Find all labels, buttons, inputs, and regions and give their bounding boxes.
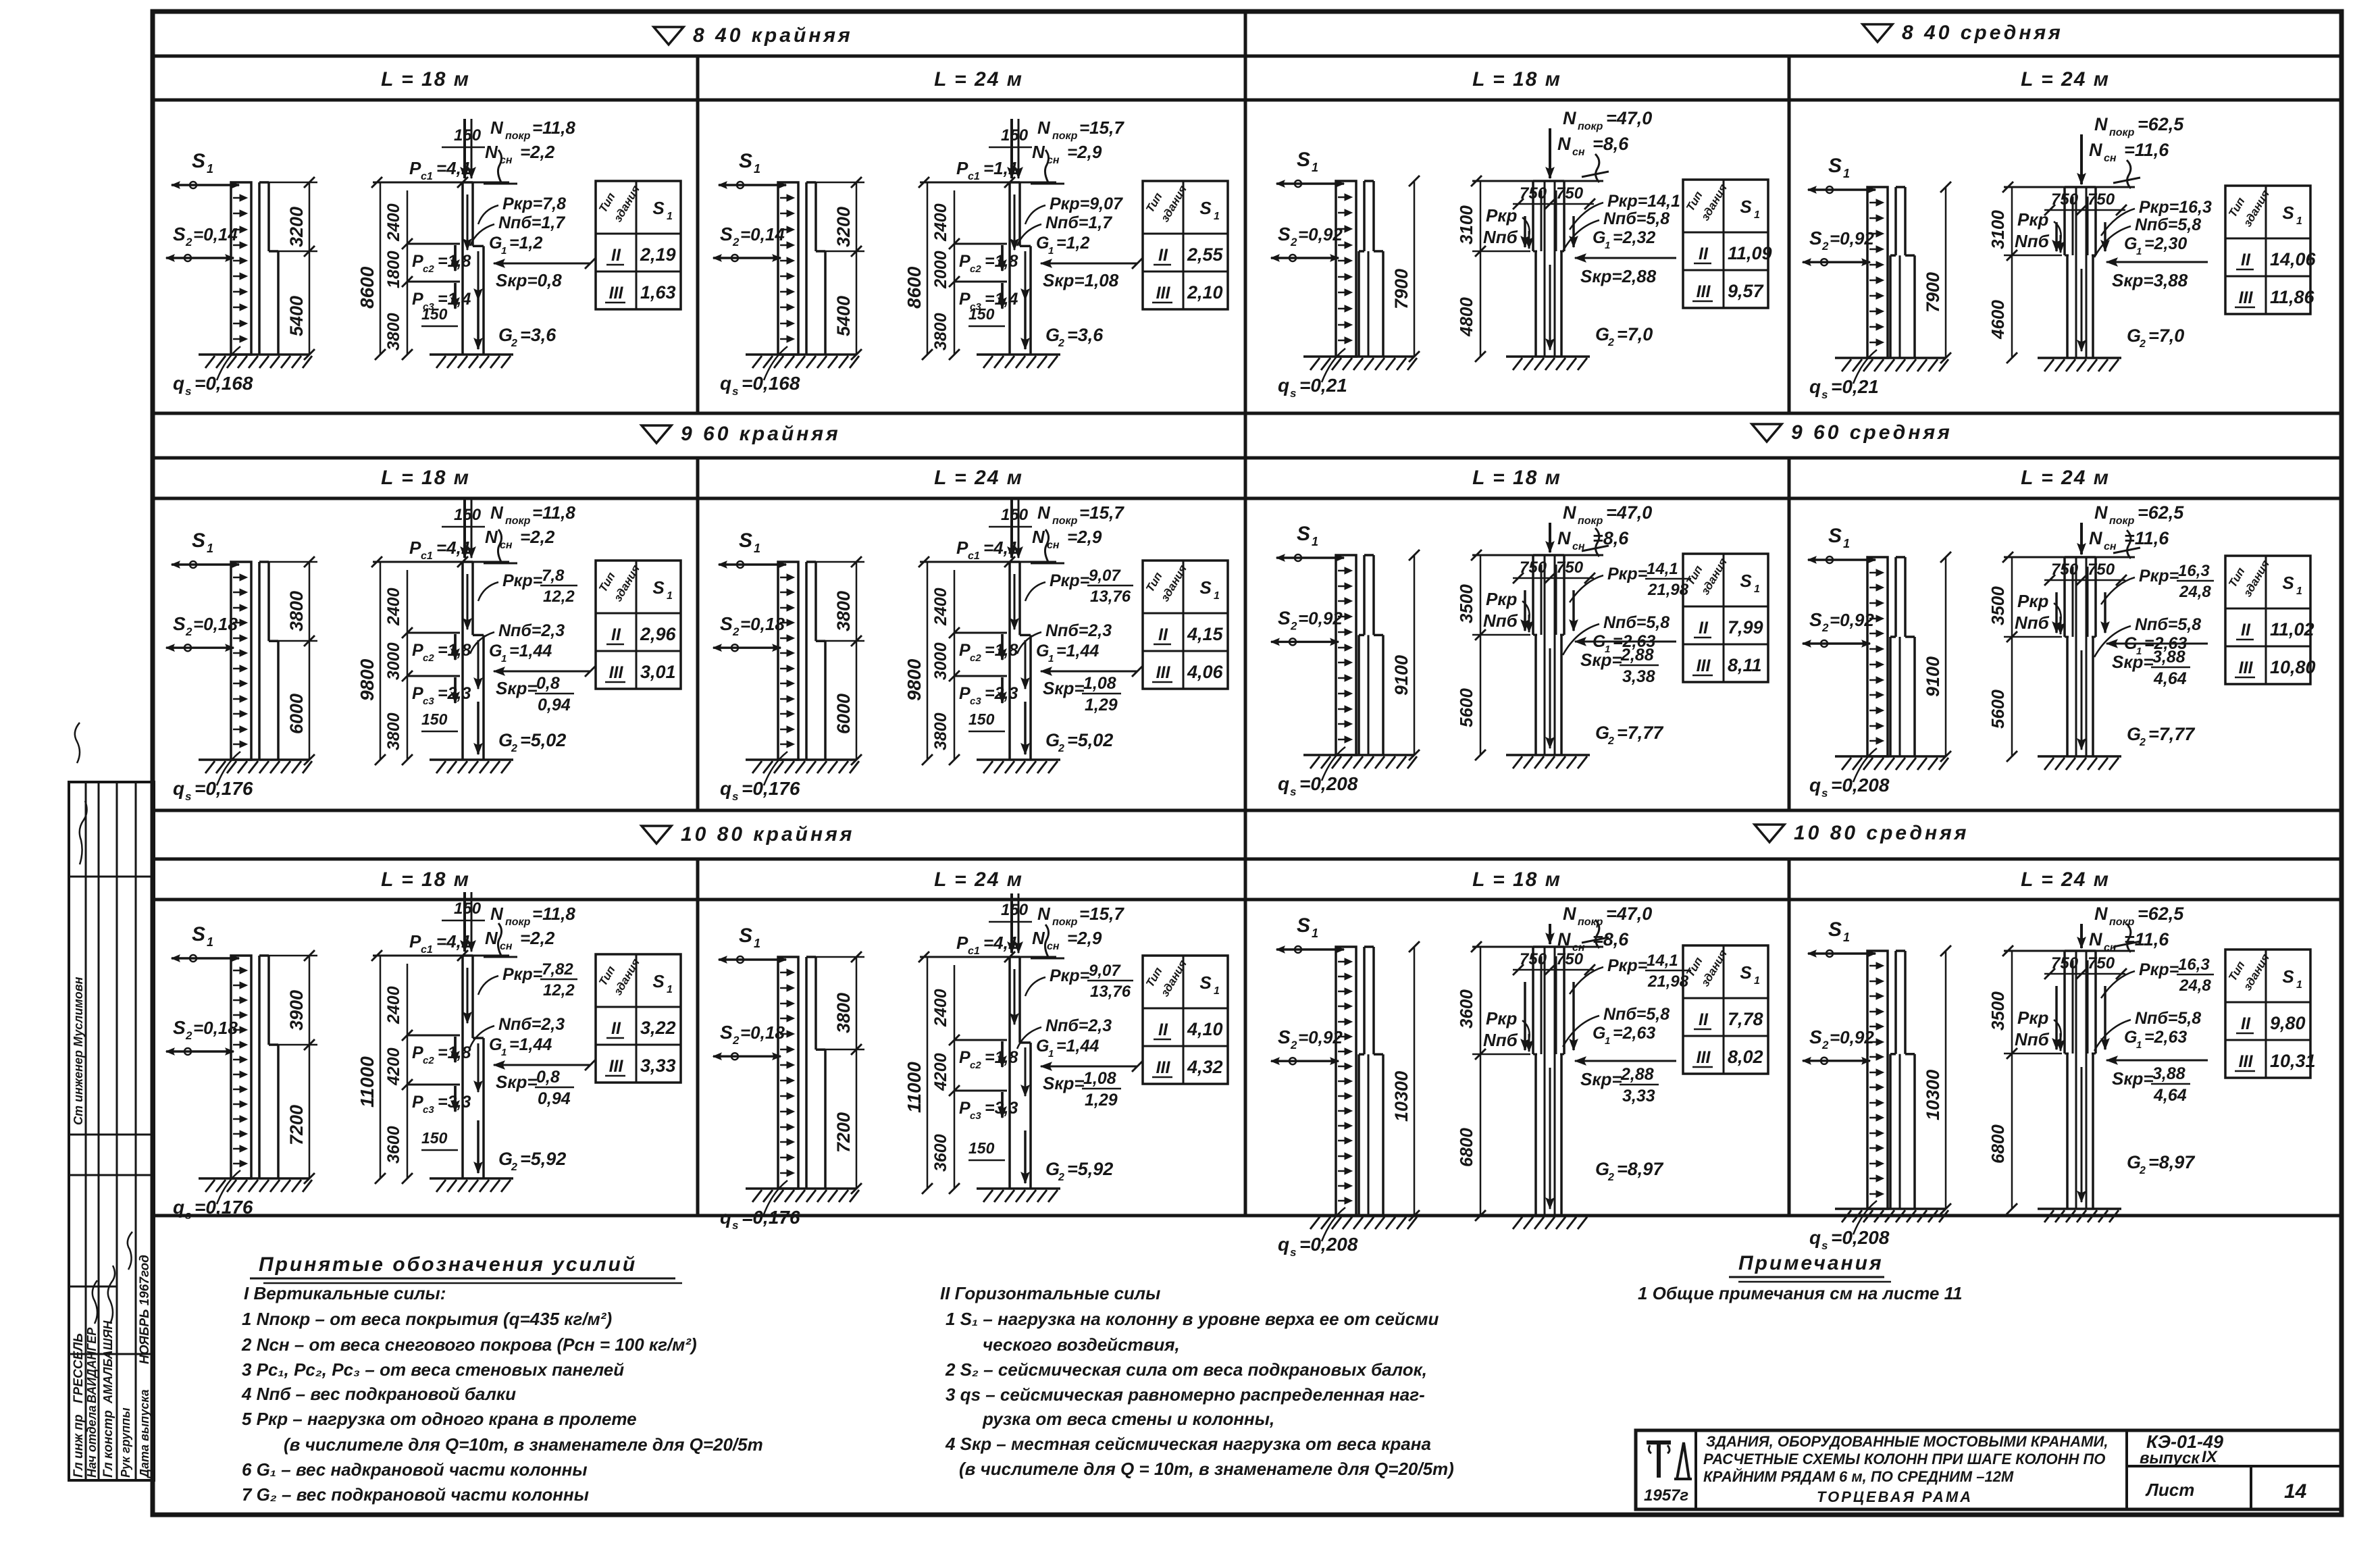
- svg-text:L = 24 м: L = 24 м: [934, 68, 1023, 90]
- cell R2C2 column load diagram: [904, 498, 1143, 773]
- svg-text:q: q: [720, 373, 731, 394]
- svg-text:11,09: 11,09: [1728, 243, 1772, 263]
- svg-text:8 40 крайняя: 8 40 крайняя: [693, 24, 853, 47]
- svg-text:4,32: 4,32: [1187, 1057, 1223, 1077]
- svg-text:покр: покр: [1578, 515, 1603, 527]
- svg-text:Sкр=1,08: Sкр=1,08: [1043, 270, 1119, 290]
- cell R1C2 wall load diagram: [713, 150, 864, 398]
- svg-text:1,08: 1,08: [1083, 1069, 1116, 1088]
- svg-text:Pкр: Pкр: [2017, 1008, 2049, 1028]
- svg-text:5600: 5600: [1456, 688, 1476, 727]
- cell R3C1 wall load diagram: [166, 923, 317, 1222]
- svg-text:1: 1: [1312, 535, 1318, 548]
- svg-text:N: N: [1037, 904, 1051, 924]
- svg-text:6 G₁ – вес надкрановой част: 6 G₁ – вес надкрановой части колонны: [242, 1459, 588, 1480]
- svg-text:S: S: [173, 224, 186, 244]
- svg-text:750: 750: [2088, 561, 2115, 579]
- svg-text:9,57: 9,57: [1728, 281, 1765, 301]
- svg-text:P: P: [409, 538, 421, 558]
- svg-text:=7,0: =7,0: [2148, 326, 2184, 346]
- svg-text:4,64: 4,64: [2153, 669, 2187, 688]
- svg-text:2,10: 2,10: [1187, 282, 1223, 303]
- svg-text:2: 2: [185, 236, 192, 249]
- svg-text:3900: 3900: [286, 990, 307, 1031]
- cell R1C2 result table: [1143, 181, 1228, 309]
- svg-text:3600: 3600: [384, 1126, 403, 1164]
- svg-text:Pкр=: Pкр=: [502, 571, 543, 590]
- svg-text:1: 1: [667, 590, 673, 602]
- svg-text:2,88: 2,88: [1620, 1065, 1654, 1084]
- svg-text:S: S: [720, 224, 733, 244]
- svg-text:=8,97: =8,97: [2148, 1152, 2196, 1172]
- svg-text:s: s: [185, 385, 191, 398]
- svg-text:8,11: 8,11: [1728, 655, 1762, 675]
- svg-text:S: S: [1199, 198, 1212, 218]
- svg-text:9800: 9800: [904, 658, 925, 701]
- svg-text:L = 18 м: L = 18 м: [381, 868, 470, 891]
- svg-text:750: 750: [2088, 954, 2115, 972]
- svg-text:6000: 6000: [833, 694, 854, 734]
- svg-text:G: G: [1595, 324, 1609, 344]
- title block codes: [2140, 1432, 2307, 1503]
- svg-text:Лист: Лист: [2145, 1480, 2194, 1500]
- svg-text:6800: 6800: [1988, 1124, 2008, 1164]
- svg-text:2: 2: [1821, 1039, 1829, 1051]
- svg-text:=15,7: =15,7: [1079, 502, 1124, 523]
- svg-text:Nпб=5,8: Nпб=5,8: [2135, 615, 2201, 634]
- svg-text:=1,44: =1,44: [1056, 642, 1099, 660]
- svg-text:c2: c2: [423, 1055, 434, 1066]
- svg-text:1 S₁ – нагрузка на колонну: 1 S₁ – нагрузка на колонну в уровне верх…: [946, 1309, 1439, 1329]
- svg-text:14,06: 14,06: [2270, 249, 2317, 269]
- svg-text:1: 1: [1605, 1035, 1610, 1047]
- svg-text:3,22: 3,22: [640, 1018, 676, 1038]
- svg-text:L = 24 м: L = 24 м: [934, 467, 1023, 489]
- svg-text:8600: 8600: [904, 266, 925, 309]
- svg-text:L = 24 м: L = 24 м: [2021, 467, 2110, 489]
- svg-text:11000: 11000: [904, 1062, 925, 1113]
- svg-text:P: P: [959, 1048, 971, 1067]
- svg-text:Nпб: Nпб: [1483, 227, 1518, 247]
- svg-text:c2: c2: [970, 263, 981, 275]
- svg-text:3 Pс₁, Pс₂, Pс₃ – от веса ст: 3 Pс₁, Pс₂, Pс₃ – от веса стеновых панел…: [242, 1359, 624, 1380]
- svg-text:q: q: [1278, 773, 1289, 794]
- svg-text:Pкр: Pкр: [1486, 205, 1518, 226]
- svg-text:150: 150: [454, 506, 482, 524]
- svg-text:1: 1: [667, 211, 673, 222]
- cell R1C3 column load diagram: [1456, 108, 1680, 370]
- header 960 крайняя: [642, 423, 841, 445]
- svg-text:=5,02: =5,02: [1067, 730, 1113, 750]
- svg-text:II: II: [611, 246, 621, 265]
- svg-text:s: s: [1821, 1239, 1828, 1252]
- svg-text:S: S: [1278, 224, 1291, 244]
- svg-text:5400: 5400: [286, 296, 307, 336]
- svg-text:9 60 средняя: 9 60 средняя: [1791, 421, 1952, 444]
- svg-text:Sкр=: Sкр=: [496, 678, 538, 698]
- svg-text:сн: сн: [2104, 153, 2117, 164]
- svg-text:5400: 5400: [833, 296, 854, 336]
- svg-text:L = 18 м: L = 18 м: [381, 467, 470, 489]
- svg-text:II: II: [2241, 621, 2251, 640]
- svg-text:4200: 4200: [384, 1047, 403, 1086]
- svg-text:S: S: [1740, 197, 1752, 217]
- svg-text:1: 1: [2136, 246, 2142, 257]
- cell R2C2 result table: [1143, 561, 1228, 689]
- svg-text:1: 1: [1048, 245, 1054, 257]
- svg-text:Nпб=5,8: Nпб=5,8: [1603, 209, 1670, 228]
- svg-text:III: III: [2239, 288, 2254, 307]
- svg-text:2 S₂ – сейсмическая сила о: 2 S₂ – сейсмическая сила от веса подкран…: [945, 1359, 1427, 1380]
- svg-text:=8,6: =8,6: [1593, 134, 1629, 154]
- svg-text:=8,6: =8,6: [1593, 528, 1629, 548]
- svg-text:2400: 2400: [384, 203, 403, 242]
- svg-text:=62,5: =62,5: [2138, 114, 2184, 134]
- svg-text:=0,168: =0,168: [195, 373, 253, 394]
- svg-text:G: G: [498, 730, 513, 750]
- svg-text:10 80 крайняя: 10 80 крайняя: [681, 823, 854, 846]
- svg-text:Nпб: Nпб: [2015, 231, 2050, 251]
- svg-text:1: 1: [1843, 931, 1850, 944]
- svg-text:S: S: [1828, 918, 1842, 941]
- svg-text:1957г: 1957г: [1644, 1486, 1688, 1505]
- svg-text:=2,2: =2,2: [520, 142, 555, 162]
- svg-text:8,02: 8,02: [1728, 1047, 1763, 1067]
- svg-text:1: 1: [207, 542, 213, 555]
- svg-text:S: S: [1199, 577, 1212, 598]
- svg-text:8600: 8600: [357, 266, 378, 309]
- svg-text:7,78: 7,78: [1728, 1009, 1763, 1029]
- svg-text:=2,32: =2,32: [1613, 228, 1655, 247]
- svg-text:=11,6: =11,6: [2124, 929, 2169, 950]
- svg-text:S: S: [2282, 966, 2294, 987]
- svg-text:9800: 9800: [357, 658, 378, 701]
- svg-text:3800: 3800: [833, 993, 854, 1033]
- svg-text:6800: 6800: [1456, 1128, 1476, 1167]
- svg-text:S: S: [720, 613, 733, 634]
- svg-text:4 Nпб – вес подкрановой бал: 4 Nпб – вес подкрановой балки: [241, 1384, 516, 1404]
- svg-text:S: S: [192, 529, 205, 552]
- svg-text:=2,9: =2,9: [1067, 527, 1102, 547]
- svg-text:2: 2: [1058, 1172, 1064, 1183]
- svg-text:=1,8: =1,8: [985, 252, 1018, 271]
- svg-text:s: s: [732, 385, 738, 398]
- title block text: [1703, 1433, 2108, 1505]
- svg-text:Pкр=9,07: Pкр=9,07: [1050, 194, 1123, 213]
- svg-text:N: N: [1557, 528, 1571, 548]
- cell R3C4 wall load diagram: [1803, 918, 1951, 1252]
- svg-text:II: II: [2241, 251, 2251, 269]
- svg-text:3100: 3100: [1988, 210, 2008, 249]
- svg-text:2400: 2400: [931, 203, 950, 242]
- svg-text:1,29: 1,29: [1085, 696, 1118, 714]
- svg-text:покр: покр: [1578, 121, 1603, 132]
- svg-text:III: III: [1697, 282, 1711, 301]
- cell R1C4 column load diagram: [1988, 114, 2212, 371]
- svg-text:2: 2: [732, 236, 740, 249]
- svg-text:=47,0: =47,0: [1606, 502, 1652, 523]
- strip signatures: [72, 723, 152, 1479]
- svg-text:Sкр=: Sкр=: [496, 1072, 538, 1092]
- cell R3C2 result table: [1143, 956, 1228, 1084]
- cell R1C4 wall load diagram: [1803, 155, 1951, 401]
- svg-text:3500: 3500: [1988, 991, 2008, 1031]
- svg-text:=0,176: =0,176: [742, 778, 800, 799]
- svg-text:Гл инж пр: Гл инж пр: [72, 1414, 86, 1478]
- svg-text:2,55: 2,55: [1187, 244, 1224, 265]
- svg-text:c1: c1: [421, 550, 433, 562]
- svg-text:s: s: [185, 790, 191, 803]
- svg-text:G: G: [489, 642, 502, 660]
- svg-text:=1,8: =1,8: [438, 252, 471, 271]
- svg-text:N: N: [2089, 140, 2102, 160]
- svg-text:3,88: 3,88: [2152, 648, 2185, 667]
- cell R1C3 result table: [1683, 180, 1772, 308]
- svg-text:S: S: [652, 971, 665, 991]
- svg-text:P: P: [959, 252, 971, 271]
- svg-text:12,2: 12,2: [543, 588, 575, 606]
- svg-text:L = 18 м: L = 18 м: [381, 68, 470, 90]
- svg-text:=1,44: =1,44: [509, 642, 552, 660]
- svg-text:2: 2: [1290, 236, 1297, 249]
- svg-text:Pкр=14,1: Pкр=14,1: [1607, 192, 1680, 211]
- cell R3C4 column load diagram: [1988, 904, 2214, 1222]
- svg-text:N: N: [1563, 502, 1576, 523]
- svg-text:L = 24 м: L = 24 м: [934, 868, 1023, 891]
- svg-text:10,80: 10,80: [2270, 657, 2316, 677]
- svg-text:1: 1: [2296, 979, 2302, 991]
- svg-text:P: P: [412, 1043, 423, 1062]
- svg-text:Pкр=7,8: Pкр=7,8: [502, 194, 566, 213]
- svg-text:16,3: 16,3: [2178, 956, 2210, 974]
- svg-text:1: 1: [1214, 590, 1220, 602]
- cell R1C3 wall load diagram: [1271, 149, 1420, 400]
- legend vertical forces list: [241, 1283, 763, 1505]
- svg-text:G: G: [1036, 1037, 1049, 1056]
- svg-text:11000: 11000: [357, 1056, 378, 1108]
- svg-text:1: 1: [1605, 240, 1610, 251]
- svg-text:II: II: [611, 1019, 621, 1038]
- svg-text:3600: 3600: [1456, 989, 1476, 1029]
- svg-text:q: q: [1278, 375, 1289, 396]
- svg-text:4 Sкр – местная сейсмическ: 4 Sкр – местная сейсмическая нагрузка от…: [945, 1434, 1431, 1454]
- svg-text:G: G: [1036, 642, 1049, 660]
- cell R2C4 wall load diagram: [1803, 525, 1951, 800]
- svg-text:=3,3: =3,3: [985, 1099, 1018, 1118]
- svg-text:150: 150: [968, 1139, 995, 1157]
- svg-text:сн: сн: [1572, 541, 1585, 552]
- svg-text:c3: c3: [423, 1104, 434, 1116]
- svg-text:2: 2: [1290, 619, 1297, 632]
- svg-text:покр: покр: [505, 916, 531, 928]
- svg-text:II: II: [1699, 619, 1709, 638]
- legend horizontal forces list: [940, 1283, 1454, 1479]
- cell R2C1 wall load diagram: [166, 529, 317, 803]
- svg-text:=47,0: =47,0: [1606, 904, 1652, 924]
- cell R3C2 column load diagram: [904, 893, 1143, 1202]
- svg-text:ческого воздействия,: ческого воздействия,: [983, 1334, 1180, 1355]
- svg-text:c1: c1: [968, 171, 980, 182]
- svg-text:=11,8: =11,8: [532, 904, 575, 924]
- svg-text:=1,8: =1,8: [985, 641, 1018, 660]
- svg-text:покр: покр: [1052, 130, 1078, 142]
- svg-text:1: 1: [207, 935, 213, 949]
- svg-text:2: 2: [1058, 743, 1064, 754]
- svg-text:=7,77: =7,77: [2148, 724, 2196, 744]
- svg-text:N: N: [485, 142, 498, 162]
- svg-text:Pкр=: Pкр=: [1607, 956, 1648, 975]
- svg-text:(в числителе для Q = 10т,: (в числителе для Q = 10т, в знаменателе …: [959, 1459, 1454, 1479]
- title block logo ТД 1957г: [1644, 1442, 1692, 1505]
- cell R2C4 column load diagram: [1988, 502, 2214, 770]
- svg-text:150: 150: [968, 305, 995, 323]
- svg-text:=0,176: =0,176: [195, 778, 253, 799]
- svg-text:S: S: [2282, 203, 2294, 223]
- svg-text:q: q: [720, 778, 731, 799]
- svg-text:s: s: [185, 1209, 191, 1222]
- svg-text:Sкр=: Sкр=: [1043, 678, 1085, 698]
- svg-text:2: 2: [511, 743, 517, 754]
- svg-text:3100: 3100: [1456, 205, 1476, 244]
- svg-text:c2: c2: [423, 263, 434, 275]
- svg-text:покр: покр: [1578, 916, 1603, 928]
- cell R2C3 result table: [1683, 554, 1768, 682]
- svg-text:2 Nсн – от веса снегового п: 2 Nсн – от веса снегового покрова (Pсн =…: [241, 1334, 697, 1355]
- svg-text:Рук группы: Рук группы: [119, 1407, 132, 1478]
- svg-text:Nпб=5,8: Nпб=5,8: [1603, 613, 1670, 632]
- svg-text:=1,2: =1,2: [509, 234, 542, 253]
- svg-text:P: P: [959, 641, 971, 660]
- svg-text:1: 1: [1048, 1048, 1054, 1060]
- svg-text:1: 1: [1214, 985, 1220, 997]
- svg-text:=11,8: =11,8: [532, 502, 575, 523]
- svg-text:G: G: [1595, 723, 1609, 743]
- svg-text:Sкр=2,88: Sкр=2,88: [1580, 266, 1657, 286]
- svg-text:q: q: [720, 1207, 731, 1228]
- svg-text:G: G: [498, 1149, 513, 1169]
- svg-text:I Вертикальные силы:: I Вертикальные силы:: [244, 1283, 446, 1303]
- svg-text:Pкр=16,3: Pкр=16,3: [2139, 198, 2212, 217]
- cell R2C3 wall load diagram: [1271, 523, 1420, 798]
- svg-text:S: S: [192, 923, 205, 945]
- svg-text:=1,2: =1,2: [1056, 234, 1089, 253]
- svg-text:Pкр=: Pкр=: [2139, 960, 2179, 979]
- svg-text:1: 1: [1048, 653, 1054, 665]
- svg-text:1,08: 1,08: [1083, 674, 1116, 693]
- svg-text:ЗДАНИЯ, ОБОРУДОВАННЫЕ МОСТОВ: ЗДАНИЯ, ОБОРУДОВАННЫЕ МОСТОВЫМИ КРАНАМИ,: [1706, 1433, 2108, 1450]
- cell R3C1 column load diagram: [357, 892, 596, 1192]
- cell R2C2 wall load diagram: [713, 529, 864, 803]
- svg-text:150: 150: [1001, 506, 1029, 524]
- svg-text:1: 1: [501, 653, 507, 665]
- svg-text:ТОРЦЕВАЯ РАМА: ТОРЦЕВАЯ РАМА: [1817, 1488, 1973, 1505]
- svg-text:1: 1: [501, 1047, 507, 1058]
- svg-text:L = 24 м: L = 24 м: [2021, 68, 2110, 90]
- svg-text:0,94: 0,94: [538, 1089, 571, 1108]
- svg-text:N: N: [490, 502, 504, 523]
- svg-text:2: 2: [1607, 735, 1614, 747]
- svg-text:Pкр: Pкр: [2017, 209, 2049, 230]
- svg-text:q: q: [1809, 775, 1821, 796]
- svg-text:c2: c2: [970, 1060, 981, 1071]
- svg-text:24,8: 24,8: [2179, 583, 2211, 601]
- svg-text:7200: 7200: [833, 1112, 854, 1153]
- svg-text:150: 150: [421, 1129, 448, 1147]
- svg-text:4,15: 4,15: [1187, 624, 1224, 644]
- svg-text:S: S: [1809, 228, 1822, 249]
- svg-text:s: s: [732, 790, 738, 803]
- svg-text:G: G: [2127, 724, 2141, 744]
- svg-text:II Горизонтальные силы: II Горизонтальные силы: [940, 1283, 1160, 1303]
- svg-text:5 Pкр – нагрузка от одного: 5 Pкр – нагрузка от одного крана в проле…: [242, 1409, 637, 1429]
- svg-text:2400: 2400: [384, 986, 403, 1024]
- svg-text:1 Nпокр – от веса покрытия: 1 Nпокр – от веса покрытия (q=435 кг/м²): [242, 1309, 612, 1329]
- svg-text:Nпб: Nпб: [2015, 1029, 2050, 1049]
- svg-text:c3: c3: [970, 1110, 981, 1122]
- svg-text:=15,7: =15,7: [1079, 118, 1124, 138]
- svg-text:N: N: [1032, 142, 1045, 162]
- svg-text:Принятые обозначения усили: Принятые обозначения усилий: [259, 1253, 637, 1276]
- svg-text:=2,2: =2,2: [520, 527, 555, 547]
- svg-text:S: S: [1297, 149, 1310, 171]
- svg-text:Sкр=: Sкр=: [1043, 1073, 1085, 1093]
- svg-text:=2,63: =2,63: [2144, 1028, 2187, 1047]
- svg-text:2,88: 2,88: [1620, 646, 1654, 665]
- svg-text:S: S: [192, 150, 205, 172]
- svg-text:P: P: [412, 252, 423, 271]
- svg-text:Nпб=5,8: Nпб=5,8: [1603, 1005, 1670, 1024]
- svg-text:2: 2: [185, 1029, 192, 1042]
- svg-text:L = 18 м: L = 18 м: [1472, 868, 1561, 891]
- svg-text:Нач отдела: Нач отдела: [85, 1405, 99, 1478]
- svg-text:2: 2: [1607, 1172, 1614, 1183]
- cell R3C4 result table: [2225, 950, 2316, 1078]
- svg-text:III: III: [2239, 1052, 2254, 1071]
- svg-text:=2,63: =2,63: [1613, 1024, 1655, 1043]
- svg-text:НОЯБРЬ 1967год: НОЯБРЬ 1967год: [138, 1255, 152, 1364]
- svg-text:P: P: [959, 684, 971, 703]
- svg-text:G: G: [1045, 730, 1060, 750]
- legend title: [250, 1253, 682, 1283]
- svg-text:3500: 3500: [1988, 586, 2008, 625]
- svg-text:=3,6: =3,6: [1067, 325, 1104, 345]
- svg-text:II: II: [1699, 1010, 1709, 1029]
- cell R1C1 column load diagram: [357, 118, 596, 368]
- svg-text:Nпб=2,3: Nпб=2,3: [1045, 1016, 1112, 1035]
- svg-text:9,80: 9,80: [2270, 1013, 2306, 1033]
- svg-text:q: q: [173, 1197, 184, 1218]
- svg-text:S: S: [173, 613, 186, 634]
- svg-text:S: S: [1740, 571, 1752, 591]
- svg-text:выпуск: выпуск: [2140, 1449, 2200, 1467]
- svg-text:4800: 4800: [1456, 297, 1476, 337]
- svg-text:II: II: [1158, 246, 1168, 265]
- svg-text:=47,0: =47,0: [1606, 108, 1652, 128]
- svg-text:S: S: [1740, 962, 1752, 983]
- svg-text:9 60 крайняя: 9 60 крайняя: [681, 423, 841, 445]
- middle divider: [1244, 11, 1247, 1216]
- svg-text:Nпб=1,7: Nпб=1,7: [498, 213, 565, 232]
- svg-text:7200: 7200: [286, 1105, 307, 1145]
- svg-text:=11,6: =11,6: [2124, 140, 2169, 160]
- svg-text:=1,44: =1,44: [509, 1035, 552, 1054]
- svg-text:=2,30: =2,30: [2144, 234, 2187, 253]
- svg-text:III: III: [1697, 1048, 1711, 1067]
- svg-text:АМАЛБАШЯН: АМАЛБАШЯН: [101, 1320, 115, 1404]
- svg-text:G: G: [2124, 234, 2137, 253]
- svg-text:10300: 10300: [1923, 1070, 1943, 1120]
- svg-text:150: 150: [454, 900, 482, 918]
